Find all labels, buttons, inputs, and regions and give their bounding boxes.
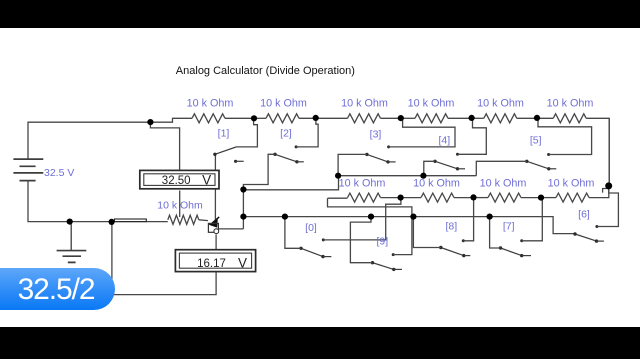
svg-text:10 k Ohm: 10 k Ohm bbox=[157, 200, 203, 212]
svg-text:10 k Ohm: 10 k Ohm bbox=[339, 178, 386, 190]
svg-text:[3]: [3] bbox=[370, 129, 382, 141]
svg-text:[4]: [4] bbox=[438, 134, 450, 146]
svg-text:[5]: [5] bbox=[530, 134, 542, 146]
svg-text:[8]: [8] bbox=[445, 221, 457, 233]
svg-text:[1]: [1] bbox=[218, 128, 230, 140]
svg-text:[9]: [9] bbox=[376, 236, 388, 248]
svg-text:V: V bbox=[238, 255, 247, 270]
svg-text:10 k Ohm: 10 k Ohm bbox=[187, 98, 234, 110]
svg-text:Analog Calculator (Divide Oper: Analog Calculator (Divide Operation) bbox=[176, 65, 355, 77]
svg-text:10 k Ohm: 10 k Ohm bbox=[547, 98, 594, 110]
svg-text:32.50: 32.50 bbox=[162, 175, 191, 187]
svg-text:10 k Ohm: 10 k Ohm bbox=[341, 98, 388, 110]
svg-text:10 k Ohm: 10 k Ohm bbox=[413, 178, 460, 190]
svg-text:10 k Ohm: 10 k Ohm bbox=[480, 178, 527, 190]
svg-text:32.5 V: 32.5 V bbox=[44, 167, 74, 179]
svg-text:16.17: 16.17 bbox=[197, 258, 226, 270]
svg-text:[7]: [7] bbox=[503, 221, 515, 233]
svg-text:10 k Ohm: 10 k Ohm bbox=[408, 98, 455, 110]
svg-text:V: V bbox=[202, 173, 211, 188]
svg-text:[6]: [6] bbox=[578, 209, 590, 221]
svg-text:10 k Ohm: 10 k Ohm bbox=[548, 178, 595, 190]
svg-text:[2]: [2] bbox=[280, 128, 292, 140]
svg-text:10 k Ohm: 10 k Ohm bbox=[260, 98, 307, 110]
svg-text:[0]: [0] bbox=[305, 222, 317, 234]
svg-text:10 k Ohm: 10 k Ohm bbox=[477, 98, 524, 110]
